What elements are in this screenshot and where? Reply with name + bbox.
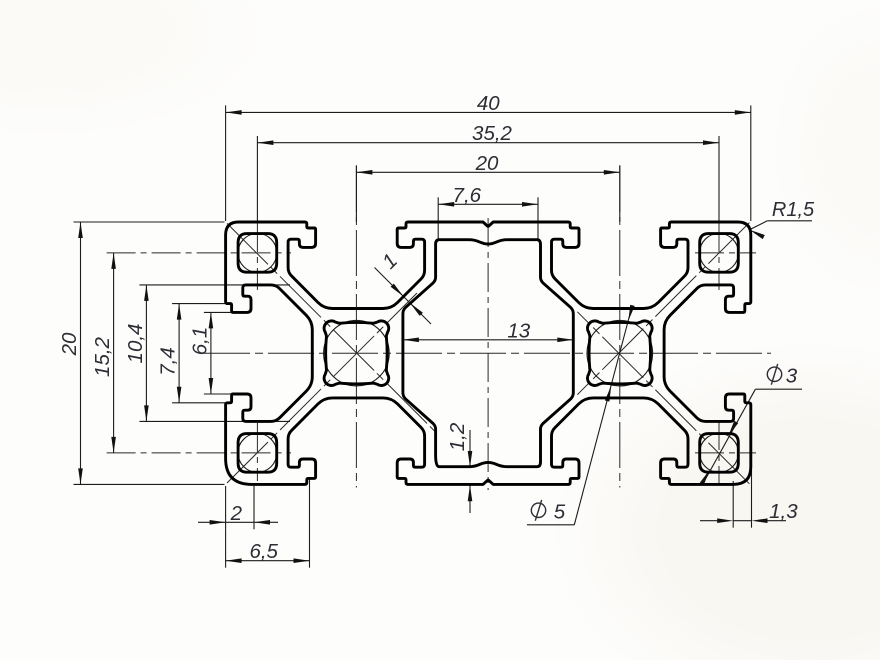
svg-text:7,6: 7,6 <box>453 184 482 207</box>
svg-text:6,5: 6,5 <box>249 540 278 563</box>
svg-text:R1,5: R1,5 <box>772 199 815 221</box>
svg-text:1,2: 1,2 <box>446 422 469 451</box>
svg-text:3: 3 <box>786 364 798 387</box>
svg-text:40: 40 <box>477 92 500 115</box>
svg-text:10,4: 10,4 <box>124 324 147 364</box>
svg-text:5: 5 <box>554 500 566 523</box>
svg-text:20: 20 <box>58 332 81 356</box>
svg-text:15,2: 15,2 <box>91 336 114 376</box>
svg-text:1,3: 1,3 <box>769 500 798 523</box>
svg-text:2: 2 <box>230 502 243 525</box>
svg-text:6,1: 6,1 <box>188 327 211 356</box>
svg-text:7,4: 7,4 <box>157 347 180 376</box>
svg-text:20: 20 <box>475 152 499 175</box>
svg-text:13: 13 <box>507 319 530 342</box>
svg-text:35,2: 35,2 <box>472 122 512 145</box>
